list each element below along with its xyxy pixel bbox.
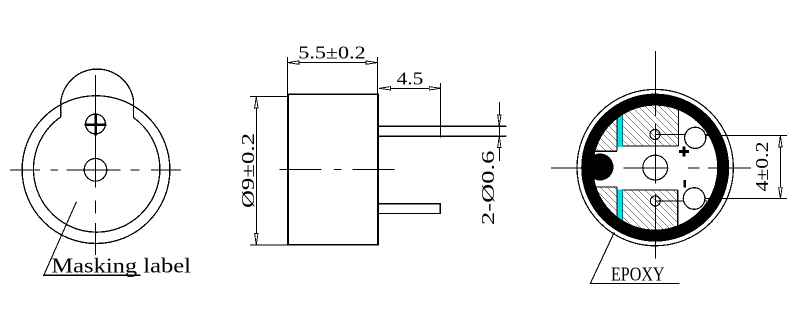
- top pin hole: [685, 127, 706, 148]
- center circle: [643, 155, 668, 180]
- inner circle (gap at bump): [33, 117, 159, 232]
- dim 4 ext top: [706, 135, 787, 137]
- arrow dia0.6 down: [498, 115, 501, 126]
- bump arc: [61, 69, 134, 102]
- bump side left: [60, 102, 62, 117]
- arrow dia9 bottom: [255, 233, 258, 244]
- leader masking label: [44, 202, 141, 275]
- bottom pin: [378, 204, 440, 214]
- top main hatch block: [623, 89, 679, 146]
- black notch blob: [587, 154, 614, 181]
- centerline middle view: [279, 168, 394, 170]
- vertical centerline right view: [654, 51, 656, 259]
- arrow 4 top: [779, 136, 782, 147]
- top connector line: [655, 133, 709, 135]
- bottom pad small circle: [650, 196, 660, 206]
- bump side right: [133, 100, 135, 118]
- dim 4.5 line: [379, 87, 441, 89]
- arrow 4 bottom: [779, 187, 782, 198]
- dim dia9 ext top: [250, 95, 289, 97]
- svg-text:2-Ø0.6: 2-Ø0.6: [478, 151, 498, 225]
- horizontal centerline right view: [551, 167, 751, 169]
- svg-text:4.5: 4.5: [397, 69, 424, 89]
- crosshair hole circle: [86, 114, 106, 134]
- top pad small circle: [650, 130, 660, 140]
- svg-text:Ø9±0.2: Ø9±0.2: [238, 133, 258, 208]
- svg-text:EPOXY: EPOXY: [611, 263, 665, 285]
- arrow dia0.6 up: [498, 136, 501, 147]
- arrow 4.5 right: [429, 87, 440, 90]
- arrow dia9 top: [255, 97, 258, 108]
- crosshair cross: [85, 114, 107, 136]
- edge lines of hatch regions: [577, 89, 617, 151]
- cyan bar bottom: [617, 189, 622, 222]
- outer circle: [22, 96, 170, 244]
- dim 4.5 ext line: [440, 83, 442, 138]
- minus sign (vertical): [683, 180, 686, 187]
- center hole circle: [84, 159, 107, 182]
- top-left hatch wedge: [577, 89, 617, 151]
- bottom connector line: [655, 200, 707, 202]
- horizontal centerline left view: [10, 169, 181, 171]
- dim 5.5 line: [288, 62, 378, 64]
- top pin upper edge: [378, 125, 506, 127]
- top pin lower edge: [378, 135, 506, 137]
- dim dia9 ext bottom: [250, 244, 289, 246]
- pin edge ext lines: [500, 125, 507, 127]
- bottom main hatch block: [623, 190, 678, 240]
- vertical centerline left view: [95, 75, 97, 255]
- hatch and metal clipped group: [577, 89, 679, 242]
- cyan bar top: [617, 112, 622, 147]
- body rectangle: [288, 94, 378, 244]
- arrow 4.5 left: [379, 87, 390, 90]
- dim dia9 line: [255, 96, 257, 245]
- dim dia0.6 vertical line: [498, 102, 500, 161]
- arrow 5.5 left: [288, 61, 299, 64]
- dim 5.5 ext line left: [287, 57, 289, 94]
- dim 4 line: [779, 136, 781, 199]
- arrow 5.5 right: [366, 61, 377, 64]
- plus sign: [679, 146, 689, 156]
- bottom pin hole: [683, 188, 705, 210]
- svg-text:5.5±0.2: 5.5±0.2: [298, 42, 365, 62]
- leader epoxy: [590, 232, 679, 283]
- dim 5.5 ext line right: [377, 57, 379, 94]
- dim 4 ext bottom: [705, 198, 787, 200]
- svg-text:Masking label: Masking label: [51, 254, 191, 278]
- thin outer circle: [577, 89, 733, 245]
- thick black ring: [587, 100, 723, 236]
- svg-text:4±0.2: 4±0.2: [752, 142, 772, 192]
- bottom-left hatch wedge: [577, 187, 617, 242]
